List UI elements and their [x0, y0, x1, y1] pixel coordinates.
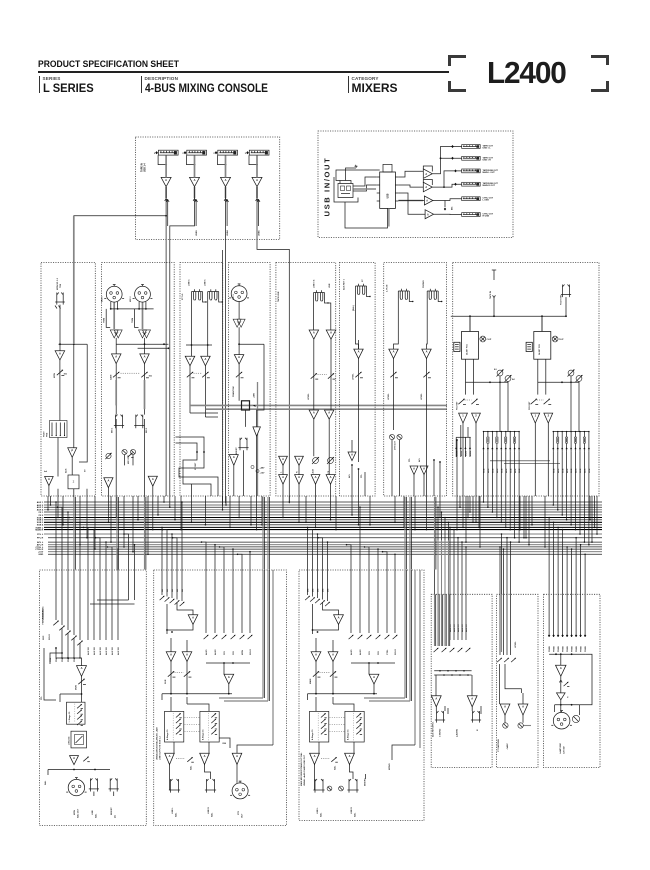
svg-text:LINE OUTPUTS SUB 1-2: LINE OUTPUTS SUB 1-2: [160, 735, 162, 760]
op-amp U3 tape input buffer: [221, 177, 231, 186]
svg-text:LEVEL: LEVEL: [353, 373, 355, 380]
fx1 return pots: [458, 399, 464, 404]
svg-text:A: A: [298, 475, 300, 479]
svg-text:MAIN L OUT: MAIN L OUT: [483, 171, 496, 174]
svg-text:4-Stage 15: 4-Stage 15: [311, 729, 314, 740]
svg-text:TRIM: TRIM: [104, 318, 106, 323]
stereo link C: [194, 372, 203, 374]
wire xlr 1 down: [110, 302, 112, 309]
mic out cluster: [122, 449, 127, 454]
pot circle E1: [313, 458, 319, 464]
svg-text:LIN/LOG: LIN/LOG: [69, 736, 71, 745]
svg-text:SB: SB: [162, 589, 164, 592]
rail aux box3: [351, 662, 395, 664]
svg-text:A2: A2: [512, 378, 516, 381]
svg-text:A: A: [313, 331, 315, 335]
svg-text:SUB: SUB: [589, 468, 591, 473]
fx1 return amps: [459, 413, 468, 423]
wires faders box2: [170, 697, 172, 711]
category cell: [348, 76, 398, 93]
rails box4: [434, 670, 471, 672]
svg-text:MON: MON: [74, 810, 76, 815]
wire to buffer: [57, 438, 59, 477]
pot circle E2: [328, 458, 334, 464]
svg-text:A: A: [81, 666, 83, 670]
svg-text:UNBALANCED/BALANCED +4dB: UNBALANCED/BALANCED +4dB: [156, 727, 159, 760]
svg-text:A: A: [330, 331, 332, 335]
amp box6 big: [556, 665, 567, 676]
bus line AUX 2: [44, 504, 602, 506]
wire rail to fx2: [541, 316, 543, 331]
svg-text:MN: MN: [323, 588, 325, 592]
connector usb pill 3: [462, 169, 481, 173]
header rule: [38, 71, 449, 73]
pot mon level: [59, 360, 61, 421]
svg-text:L USB: L USB: [483, 200, 490, 202]
op-amp A3 out: [45, 477, 54, 486]
svg-text:AUX1: AUX1: [350, 649, 353, 655]
loop wires C: [176, 437, 219, 496]
pot gain 1: [115, 364, 117, 415]
svg-text:MON: MON: [43, 617, 45, 622]
op-amp D3: [229, 455, 238, 466]
svg-text:A: A: [560, 666, 562, 670]
svg-text:X: X: [567, 697, 569, 699]
svg-text:2TR OUT: 2TR OUT: [395, 440, 397, 450]
sum amp box2 right: [224, 674, 234, 684]
svg-text:PFL: PFL: [41, 695, 43, 700]
connector jack mon out 1: [89, 778, 91, 789]
bus assign matrix 2: [553, 431, 589, 433]
svg-text:A: A: [189, 357, 191, 361]
bal out row 2: [295, 456, 304, 465]
svg-text:A: A: [194, 178, 196, 182]
svg-text:PHNS: PHNS: [576, 646, 578, 652]
svg-text:AUX SD: AUX SD: [87, 647, 90, 655]
wire jack 4 to op-amp: [256, 155, 258, 177]
svg-text:P: P: [71, 448, 73, 452]
svg-text:PHNS: PHNS: [581, 646, 583, 652]
svg-text:USB IN/OUT: USB IN/OUT: [323, 157, 332, 217]
svg-text:BAL OUT: BAL OUT: [77, 808, 80, 818]
svg-text:A: A: [204, 357, 206, 361]
input wires box6: [548, 594, 550, 637]
wire tape ch3 trunk: [225, 200, 227, 503]
arrow tape in: [493, 295, 494, 297]
amp pair box3: [311, 652, 321, 662]
fader links box3: [330, 717, 345, 719]
stereo link E: [318, 374, 328, 376]
svg-text:A: A: [332, 652, 334, 656]
svg-text:PHNS: PHNS: [558, 646, 560, 652]
svg-text:AFL L: AFL L: [37, 541, 44, 544]
svg-text:A: A: [338, 615, 340, 619]
gray trunks box2: [262, 570, 264, 698]
connector usb pill 1: [462, 145, 481, 149]
junction rail box3: [308, 693, 378, 695]
svg-text:FX1 RET: FX1 RET: [457, 401, 459, 410]
svg-text:AUX RETURN 1: AUX RETURN 1: [431, 721, 434, 737]
wire usb shield: [334, 177, 358, 202]
svg-text:MAIN: MAIN: [309, 678, 312, 684]
trim loop 1: [106, 309, 110, 328]
svg-text:A: A: [315, 652, 317, 656]
svg-text:MIC 2: MIC 2: [130, 296, 132, 302]
aux/mon master box: [40, 570, 147, 826]
connector jack sub R: [206, 779, 208, 790]
svg-text:10k: 10k: [149, 376, 153, 378]
resistor row box1: [53, 621, 58, 626]
connector mon jack: [56, 293, 58, 303]
svg-text:+48V: +48V: [253, 392, 256, 398]
svg-text:SUB: SUB: [501, 468, 503, 473]
amp pair box2: [166, 652, 176, 662]
svg-text:SRC: SRC: [43, 635, 45, 640]
third amp box2: [232, 753, 242, 764]
bus line AFL R: [48, 544, 602, 546]
op-amp E4: [324, 410, 334, 419]
op-amp A1: [55, 351, 65, 360]
svg-text:1 MONO: 1 MONO: [440, 728, 442, 737]
svg-text:PHNS: PHNS: [563, 646, 565, 652]
sum amp box3 top: [334, 615, 344, 625]
svg-text:BAL: BAL: [44, 780, 47, 785]
connector usb pill 6: [462, 213, 481, 217]
labels box1 top: [87, 570, 89, 640]
phones circles box5: [503, 723, 508, 728]
svg-text:LINE 6: LINE 6: [205, 279, 207, 286]
junction rails B mid: [116, 343, 168, 345]
svg-text:FOOT SW: FOOT SW: [561, 295, 563, 305]
wires box2 to connectors: [169, 765, 171, 780]
svg-text:LEVEL: LEVEL: [308, 393, 310, 400]
bottom cluster F: [351, 464, 353, 466]
op-amp U4 tape input buffer: [252, 177, 262, 186]
fx2 return pots: [531, 399, 537, 404]
trunks from tape ch1 ch2: [165, 344, 167, 496]
wires E mid: [313, 339, 315, 410]
wire A feedback right: [79, 344, 87, 462]
connector jack mon out 2: [109, 778, 111, 789]
svg-text:MN: MN: [308, 588, 310, 592]
svg-text:TAPE/USB: TAPE/USB: [277, 291, 280, 302]
svg-text:AUX RT: AUX RT: [449, 624, 452, 632]
svg-text:SUB: SUB: [165, 679, 167, 684]
svg-text:TAPE IN: TAPE IN: [141, 163, 144, 172]
bus line MAIN R: [44, 529, 602, 531]
svg-text:A: A: [115, 355, 117, 359]
logo L2400: [487, 55, 564, 91]
svg-text:ST: ST: [362, 279, 364, 282]
wires H exits: [483, 452, 485, 496]
bus line CTRL L: [48, 546, 602, 548]
connector USB-B socket: [338, 181, 353, 198]
svg-text:A: A: [330, 475, 332, 479]
svg-text:(BAL): (BAL): [352, 305, 355, 311]
svg-text:INSERT: INSERT: [111, 807, 113, 815]
svg-text:A: A: [144, 355, 146, 359]
op-amp B3: [112, 354, 122, 364]
op-amp D2: [234, 355, 244, 364]
svg-text:BAL: BAL: [320, 812, 323, 817]
svg-text:SUB: SUB: [484, 468, 486, 473]
diamond row box6: [548, 634, 550, 637]
op-amp A2 buffer: [68, 448, 77, 458]
svg-text:FX1: FX1: [224, 650, 226, 655]
out amp box3 R: [345, 753, 355, 764]
amp box5 L: [500, 704, 510, 715]
gray links H bottom: [490, 460, 550, 462]
wires D exits: [233, 465, 235, 496]
gray through wires right: [437, 540, 439, 594]
svg-text:A: A: [425, 186, 427, 189]
svg-text:LEVEL: LEVEL: [421, 393, 423, 400]
svg-text:SUB: SUB: [519, 468, 521, 473]
wire tape ch1 to MON strip: [165, 200, 167, 344]
op-amp U11 usb out 1: [423, 169, 432, 179]
ctrl room box: [497, 594, 539, 767]
svg-text:A: A: [373, 675, 375, 679]
op-amp U13 usb in L: [424, 196, 433, 205]
wires faders box3: [315, 697, 317, 711]
svg-text:USB 1 R: USB 1 R: [483, 159, 492, 161]
gray feeds H: [469, 317, 471, 331]
svg-text:LINE: LINE: [92, 810, 94, 815]
svg-text:AUX SD: AUX SD: [111, 647, 114, 655]
bal out row2 t1: [279, 475, 288, 485]
jack cluster box4 L: [435, 707, 437, 711]
gray feeds B: [115, 380, 117, 405]
bus line +15V: [48, 551, 602, 553]
sum amp box3 right: [369, 674, 379, 684]
svg-text:PRE: PRE: [50, 657, 52, 662]
gray trunks box3: [404, 570, 406, 698]
wires box3 to connectors: [314, 765, 316, 780]
svg-text:MAIN MIX INSERT/MAIN OUT BAL: MAIN MIX INSERT/MAIN OUT BAL: [300, 752, 303, 786]
dsp block D: [242, 401, 250, 410]
svg-text:24-BIT FX1: 24-BIT FX1: [466, 343, 469, 355]
svg-text:PHNS: PHNS: [567, 646, 569, 652]
wires pots to matrix H: [499, 376, 501, 432]
svg-text:USB: USB: [388, 193, 390, 198]
svg-text:A: A: [204, 754, 206, 758]
jack cluster box4 R: [471, 707, 473, 711]
bus line PFL R: [48, 537, 602, 539]
amp box4 R: [467, 696, 477, 707]
svg-text:INS 1: INS 1: [112, 427, 114, 433]
svg-text:A: A: [225, 178, 227, 182]
logo bracket right bottom: [591, 81, 609, 92]
connector xlr lamp: [553, 712, 570, 729]
connector J3 tape jack 3: [218, 150, 238, 155]
pot pair box2: [170, 662, 172, 694]
svg-text:LINE L: LINE L: [172, 807, 174, 814]
svg-text:A: A: [522, 705, 524, 709]
svg-text:4-Stage 15: 4-Stage 15: [166, 729, 169, 740]
strip box A mon/fx return: [41, 263, 95, 497]
svg-text:CLIP: CLIP: [559, 339, 564, 341]
wire usb socket to codec: [353, 177, 377, 186]
out amp box2 L: [165, 753, 175, 764]
logo bracket right top: [591, 55, 609, 66]
wires B exits: [115, 419, 117, 496]
svg-text:AUX2: AUX2: [214, 649, 217, 655]
wire op-amp 4 output: [256, 155, 258, 177]
FX1 processor block: [462, 332, 479, 360]
op-amp G1: [389, 349, 398, 358]
strip box E stereo 7-8: [276, 263, 336, 497]
svg-text:A: A: [349, 754, 351, 758]
sum amp box1: [77, 666, 87, 677]
svg-text:TRIM: TRIM: [132, 318, 134, 323]
aux send pots 1: [497, 370, 503, 376]
FOOT SW jack: [562, 285, 564, 295]
svg-text:3: 3: [213, 153, 215, 155]
svg-text:AUX SD: AUX SD: [105, 647, 108, 655]
strip box D mic 3: [229, 263, 271, 497]
svg-text:USB: USB: [329, 283, 331, 288]
bus line MAIN L: [44, 526, 602, 528]
svg-text:3: 3: [182, 153, 184, 155]
svg-text:L: L: [281, 471, 283, 473]
rail box6: [549, 653, 585, 655]
wire op-amp 2 output: [194, 155, 196, 177]
fader links box2: [185, 717, 200, 719]
bus line SUB 3: [44, 521, 602, 523]
header: PRODUCT SPECIFICATION SHEET: [38, 59, 179, 70]
feedback loop U11: [423, 166, 432, 172]
sum amp box2 top: [188, 615, 198, 625]
svg-text:A: A: [282, 457, 284, 461]
svg-text:AUX: AUX: [65, 468, 68, 473]
wires bus to ctrl room box: [499, 547, 501, 594]
svg-text:AUX RT: AUX RT: [461, 624, 464, 632]
junction row box1: [48, 769, 110, 771]
mon group wires H: [456, 436, 471, 438]
pot E1: [311, 373, 317, 378]
main mix box: [299, 570, 424, 821]
wires F down: [356, 286, 359, 344]
svg-text:AUX: AUX: [584, 468, 587, 473]
wires E lower: [313, 419, 315, 456]
wire xlr 2 down: [138, 302, 140, 309]
svg-text:SUB: SUB: [580, 468, 582, 473]
connector J1 tape jack 1: [158, 150, 178, 155]
phones lamp box: [544, 594, 600, 767]
trim loop 2: [135, 309, 139, 328]
svg-text:MIC 1: MIC 1: [102, 296, 104, 302]
wires bus to main mix box: [307, 527, 309, 570]
svg-text:SUB: SUB: [493, 468, 495, 473]
svg-text:MON: MON: [242, 650, 244, 655]
svg-text:24-BIT FX2: 24-BIT FX2: [538, 343, 541, 355]
svg-text:10k: 10k: [64, 374, 68, 376]
wire rail to fx1: [469, 316, 471, 331]
out amp box2 R: [200, 753, 210, 764]
svg-text:FX2: FX2: [378, 650, 380, 655]
svg-text:SUB: SUB: [510, 468, 512, 473]
bottom amps G: [410, 466, 418, 475]
svg-text:MON: MON: [76, 685, 78, 690]
svg-text:SOLO: SOLO: [395, 649, 397, 655]
svg-text:A: A: [351, 453, 353, 457]
svg-text:A: A: [228, 675, 230, 679]
svg-text:SUB: SUB: [571, 468, 573, 473]
bus line SUB 4: [44, 524, 602, 526]
svg-text:PFL: PFL: [361, 473, 363, 478]
svg-text:A: A: [358, 350, 360, 354]
svg-text:A: A: [165, 178, 167, 182]
svg-text:LINE 5: LINE 5: [189, 279, 191, 286]
wire usb return loop: [345, 202, 388, 228]
bus stub extra wires: [50, 496, 52, 505]
pot box1 master: [81, 676, 83, 702]
svg-text:FX2: FX2: [233, 650, 235, 655]
svg-text:PFL L: PFL L: [37, 534, 44, 536]
USB IN/OUT section box: [318, 131, 513, 237]
mute triangle D: [253, 427, 261, 436]
bus assign matrix 1: [484, 431, 520, 433]
connector insert D: [239, 438, 241, 448]
connector jack main R: [348, 779, 350, 790]
connector tape jacks E: [314, 292, 325, 294]
svg-text:A: A: [328, 411, 330, 415]
wires bus to sub master box: [161, 527, 163, 570]
LED fx2: [552, 336, 558, 342]
junction rail B: [110, 308, 154, 310]
pot G1: [393, 359, 395, 431]
svg-text:A: A: [238, 355, 240, 359]
svg-text:AUX RT: AUX RT: [465, 624, 468, 632]
svg-text:A: A: [73, 756, 75, 760]
mute amp box1: [70, 756, 79, 765]
svg-text:MON: MON: [54, 373, 56, 378]
svg-text:PFL R: PFL R: [37, 538, 44, 540]
balanced amp B2: [139, 330, 147, 338]
svg-text:2-TK IN: 2-TK IN: [387, 284, 389, 292]
svg-text:A: A: [256, 178, 258, 182]
svg-text:CT RM/PHNS: CT RM/PHNS: [498, 738, 500, 752]
connector line jack 6: [208, 291, 219, 293]
svg-text:A: A: [170, 652, 172, 656]
svg-text:LINE R: LINE R: [351, 807, 353, 814]
svg-text:SB: SB: [177, 589, 179, 592]
svg-text:PHNS: PHNS: [572, 646, 574, 652]
op-amp U1 tape input buffer: [161, 177, 171, 186]
small circles box3: [327, 786, 332, 791]
svg-text:GND: GND: [38, 554, 43, 556]
bus line GND: [48, 553, 602, 555]
junction rows H: [466, 381, 509, 383]
input wires box3: [307, 570, 309, 595]
stereo link: [121, 372, 141, 374]
fx2 return amps: [531, 413, 540, 423]
svg-text:MN: MN: [328, 588, 330, 592]
wires A exit: [48, 486, 50, 496]
svg-text:A: A: [192, 615, 194, 619]
pot row box4: [434, 648, 439, 652]
svg-text:(2): (2): [115, 815, 117, 818]
svg-text:LAMP BNC: LAMP BNC: [559, 742, 562, 753]
pot line level 2: [204, 366, 206, 417]
connector insert jack 2: [135, 415, 137, 426]
connector 2tk jacks: [398, 290, 409, 292]
pot line level 1: [189, 366, 191, 413]
svg-text:LEVEL: LEVEL: [388, 393, 390, 400]
svg-text:PHANTOM: PHANTOM: [232, 386, 235, 397]
balance pot box3: [331, 757, 336, 762]
diamond test points usb: [451, 145, 454, 148]
